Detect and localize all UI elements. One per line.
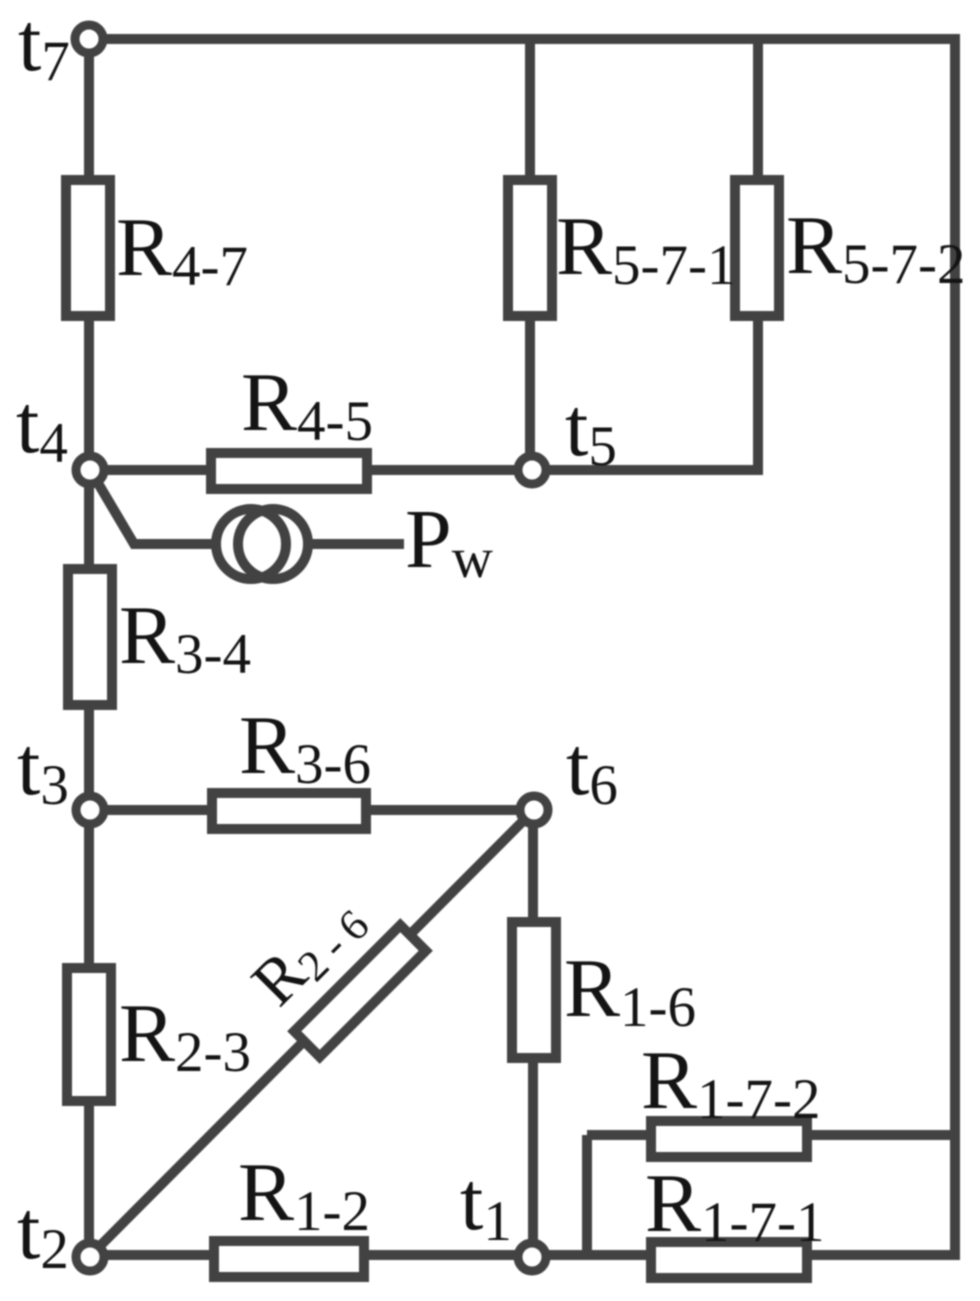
- node t6: [520, 796, 548, 824]
- node t1: [518, 1243, 546, 1271]
- svg-text:t7: t7: [18, 0, 70, 93]
- svg-text:t5: t5: [565, 381, 617, 478]
- svg-text:R1-7-2: R1-7-2: [641, 1034, 821, 1131]
- node t3: [76, 796, 104, 824]
- resistor R1-7-1 body: [651, 1242, 807, 1278]
- wire top rail t7 to right: [89, 34, 955, 44]
- wire row t2 to t1: [89, 1250, 960, 1260]
- wire Pw source to label: [304, 539, 404, 549]
- source Pw circle left: [216, 509, 286, 579]
- svg-text:R3-6: R3-6: [239, 699, 371, 796]
- svg-text:R2-3: R2-3: [119, 987, 251, 1084]
- resistor R5-7-2 body: [735, 180, 779, 316]
- resistor R1-6 body: [512, 922, 556, 1058]
- resistor R3-4 body: [68, 569, 112, 705]
- svg-text:t4: t4: [16, 378, 68, 475]
- wire column t5 / R5-7-1: [525, 39, 535, 470]
- wire stub up from t1 row to R1-7-2: [582, 1135, 592, 1255]
- svg-text:R5-7-2: R5-7-2: [786, 199, 966, 296]
- svg-text:t2: t2: [17, 1184, 69, 1281]
- wire column t6 to t1: [528, 810, 538, 1255]
- svg-text:t1: t1: [460, 1155, 512, 1253]
- node t5: [518, 456, 546, 484]
- wire row R1-7-2 to right rail: [587, 1130, 955, 1140]
- svg-text:R4-5: R4-5: [241, 356, 373, 453]
- svg-text:R5-7-1: R5-7-1: [556, 200, 736, 297]
- svg-text:t3: t3: [17, 720, 69, 817]
- svg-text:Pw: Pw: [405, 493, 493, 590]
- wire column R5-7-2: [753, 39, 763, 470]
- resistor R1-7-2 body: [651, 1121, 807, 1157]
- wire t5 to R5-7-2 bottom: [531, 465, 763, 475]
- svg-text:R1-2: R1-2: [238, 1146, 370, 1243]
- resistor R2-3 body: [67, 968, 111, 1101]
- resistor R2-6 body (diagonal): [294, 925, 426, 1057]
- node t2: [76, 1243, 104, 1271]
- resistor R5-7-1 body: [508, 180, 552, 316]
- node t7: [75, 25, 103, 53]
- wire row t3 to t6: [89, 805, 534, 815]
- wire row t4 to t5: [90, 465, 531, 475]
- resistor R3-6 body: [212, 793, 366, 829]
- svg-text:R4-7: R4-7: [116, 201, 248, 298]
- wire right rail: [950, 34, 960, 1260]
- svg-text:t6: t6: [566, 720, 618, 817]
- node t4: [76, 456, 104, 484]
- resistor R4-5 body: [211, 453, 367, 489]
- wire left rail t7-t4-t3-t2: [84, 39, 94, 1255]
- svg-text:R1-6: R1-6: [564, 942, 696, 1039]
- wire diagonal t2 to t6 (R2-6 branch): [90, 810, 534, 1256]
- wire Pw branch from t4: [92, 473, 220, 544]
- resistor R1-2 body: [214, 1241, 364, 1277]
- source Pw circle right: [238, 509, 308, 579]
- svg-text:R3-4: R3-4: [119, 589, 251, 686]
- svg-text:R1-7-1: R1-7-1: [645, 1157, 825, 1254]
- resistor R4-7 body: [66, 180, 110, 316]
